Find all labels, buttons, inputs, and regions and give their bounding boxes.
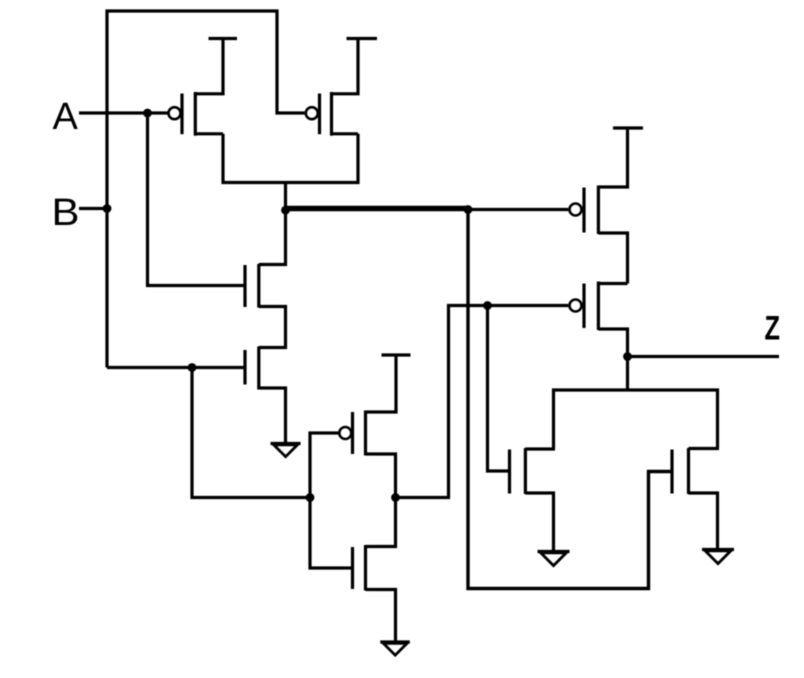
wire: NAND rail down to thick node and nmos M3 drain — [259, 183, 286, 265]
nmos M6 (inverter pull-down) — [353, 498, 396, 641]
node: thick wire right junction — [464, 205, 473, 214]
node: output Z junction — [623, 352, 632, 361]
node: thick wire left junction — [281, 206, 290, 215]
wire: inverter input vertical (gates of M5/M6) — [310, 433, 353, 568]
nmos M10 (gate NAND-out, output pull-down right) — [672, 448, 719, 549]
node: inverter input junction — [306, 493, 315, 502]
node: junction B / M4 gate / inverter input — [188, 363, 197, 372]
wire: NOT-B down to gate of nmos M9 — [488, 306, 509, 472]
wire: NAND output rail — [223, 134, 358, 183]
VDD supply of M7 — [613, 126, 643, 129]
pmos M2 (gate B, NAND pull-up) — [306, 39, 358, 136]
svg-text:Z: Z — [765, 310, 781, 348]
VDD supply of M1 — [209, 37, 238, 40]
VDD supply of M5 — [382, 353, 411, 356]
node: inverter output junction — [391, 493, 400, 502]
wire: output nmos drain rail — [554, 390, 718, 449]
svg-text:A: A — [53, 96, 79, 138]
thick wire (NAND output net) — [286, 206, 469, 212]
VDD supply of M2 — [347, 37, 378, 40]
pmos M8 (gate NOT-B, output stage lower) — [570, 282, 628, 391]
wire: B vertical and top route to gate of pmos M2 — [107, 11, 305, 368]
ground (inverter) — [380, 642, 409, 655]
nmos M4 (gate B, NAND pull-down lower) — [245, 347, 286, 443]
wire: input A to gate of pmos M1 — [79, 111, 168, 114]
svg-text:B: B — [52, 192, 80, 234]
wire: input B stub — [79, 207, 107, 210]
wire: thick node to gate of pmos M7 — [468, 208, 568, 211]
pmos M1 (gate A, NAND pull-up) — [169, 39, 224, 136]
wire: Z output — [628, 355, 780, 358]
pmos M7 (gate NAND-out, output stage upper) — [570, 128, 628, 284]
wire: B to gate of nmos M4 — [107, 366, 244, 369]
ground (left output nmos) — [538, 552, 570, 566]
pmos M5 (inverter pull-up) — [339, 355, 396, 498]
wire: B branch to inverter input — [192, 368, 310, 498]
ground (NAND stack) — [271, 444, 301, 457]
wire: inverter output to gate of pmos M8 — [396, 306, 569, 498]
node: NOT-B junction — [483, 301, 492, 310]
nmos M3 (gate A, NAND pull-down upper) — [245, 264, 286, 348]
wire: feedback NAND-out to gate of nmos M10 — [468, 210, 672, 589]
node: B junction — [103, 204, 112, 213]
nmos M9 (gate NOT-B, output pull-down left) — [510, 448, 556, 550]
wire: A branch down to gate of nmos M3 — [148, 113, 244, 286]
ground (right output nmos) — [702, 550, 734, 564]
node: A branch junction — [143, 109, 152, 118]
